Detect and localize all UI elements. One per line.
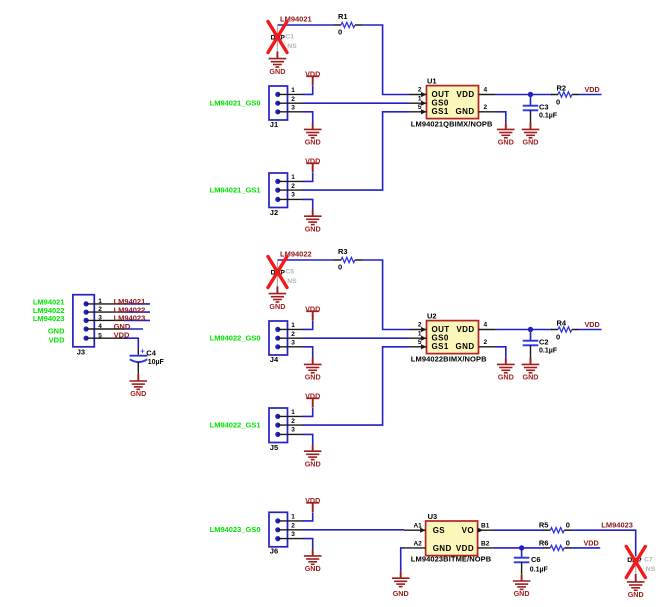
J3 stub wires — [124, 303, 150, 305]
svg-text:A1: A1 — [413, 523, 422, 530]
ground at U2 GND pin — [495, 347, 506, 358]
connector J1 (gain select 0 jumper) — [269, 86, 288, 120]
svg-text:VDD: VDD — [456, 90, 474, 99]
svg-text:GND: GND — [305, 373, 321, 382]
svg-text:C5: C5 — [285, 269, 294, 276]
power VDD net label right of R6 — [571, 547, 601, 549]
ground at J4 pin 3 — [303, 347, 313, 358]
junction node at C6 — [519, 545, 524, 550]
ground at J2 pin 3 — [303, 199, 313, 210]
resistor R3 0 ohm — [334, 259, 341, 261]
svg-text:J6: J6 — [270, 547, 278, 556]
resistor R6 0 ohm — [543, 547, 550, 549]
svg-text:0: 0 — [566, 539, 570, 548]
ground below C7 — [635, 574, 637, 582]
U3 right pin stubs — [478, 530, 494, 548]
svg-text:NS: NS — [646, 566, 656, 573]
svg-text:2: 2 — [418, 322, 422, 329]
svg-text:2: 2 — [291, 96, 295, 103]
svg-text:VDD: VDD — [49, 336, 65, 345]
ground below C3 — [530, 123, 532, 130]
connector J5 (gain select 1 jumper) — [269, 408, 288, 443]
U2 left pin stubs — [409, 330, 427, 347]
connector J3 (signal header) — [73, 295, 94, 347]
svg-text:LM94021QBIMX/NOPB: LM94021QBIMX/NOPB — [411, 120, 493, 129]
wire J5 pin 2 to U GS1 — [303, 347, 410, 425]
svg-text:U2: U2 — [427, 312, 437, 321]
U1 left pin stubs — [409, 95, 427, 112]
ground below C2 — [530, 358, 532, 365]
svg-text:U3: U3 — [428, 512, 438, 521]
svg-text:VDD: VDD — [456, 544, 474, 553]
svg-text:GND: GND — [305, 564, 321, 573]
wire LM94021 to R1 and U pin OUT — [277, 24, 334, 26]
svg-text:5: 5 — [418, 104, 422, 111]
svg-text:B2: B2 — [481, 540, 490, 547]
wire U1 VDD pin to C3 and R2 — [495, 94, 552, 96]
connector J4 (gain select 0 jumper) — [269, 321, 288, 355]
svg-text:2: 2 — [291, 522, 295, 529]
ground at U1 GND pin — [495, 112, 506, 123]
ground below C4 — [137, 374, 139, 381]
svg-text:NS: NS — [287, 43, 297, 50]
svg-text:GS: GS — [433, 526, 446, 535]
svg-text:R5: R5 — [539, 521, 549, 530]
svg-text:0: 0 — [556, 97, 560, 106]
svg-text:GND: GND — [523, 138, 539, 147]
svg-text:J1: J1 — [270, 120, 278, 129]
node LM94023 net label — [571, 530, 636, 556]
svg-text:10µF: 10µF — [148, 359, 165, 366]
svg-text:3: 3 — [98, 315, 102, 322]
svg-text:LM94021_GS1: LM94021_GS1 — [210, 185, 261, 194]
wire U2 VDD pin to C2 and R4 — [495, 329, 552, 331]
U2 right pin stubs — [479, 330, 496, 347]
ground at U3 GND pin A2 — [401, 548, 404, 572]
svg-text:GND: GND — [393, 589, 409, 598]
ground at J6 pin 3 — [303, 539, 313, 550]
svg-text:OUT: OUT — [432, 90, 450, 99]
svg-text:2: 2 — [418, 87, 422, 94]
junction node at C3 — [528, 92, 533, 97]
svg-text:GND: GND — [498, 373, 514, 382]
ground below C1 — [276, 52, 278, 59]
junction node at C2 — [528, 327, 533, 332]
svg-text:1: 1 — [418, 96, 422, 103]
svg-text:GND: GND — [456, 107, 475, 116]
ground below C5 — [276, 287, 278, 294]
svg-text:2: 2 — [291, 418, 295, 425]
svg-text:2: 2 — [484, 339, 488, 346]
svg-text:C2: C2 — [539, 337, 549, 346]
svg-text:GND: GND — [514, 589, 530, 598]
wire J2 pin 2 to U GS1 — [303, 112, 410, 190]
svg-text:0: 0 — [338, 263, 342, 272]
capacitor C7 DNP (not stuffed) — [631, 558, 641, 562]
svg-text:GS1: GS1 — [432, 342, 449, 351]
svg-text:GND: GND — [523, 373, 539, 382]
wire U3 VO pin B1 to R5 — [494, 529, 544, 531]
svg-text:A2: A2 — [413, 540, 422, 547]
svg-text:GND: GND — [269, 302, 285, 311]
svg-text:VDD: VDD — [585, 85, 600, 94]
wire J4 pin 2 to U GS0 — [303, 337, 410, 339]
svg-text:0.1µF: 0.1µF — [539, 113, 558, 120]
svg-text:GND: GND — [305, 224, 321, 233]
svg-text:1: 1 — [98, 298, 102, 305]
svg-text:LM94022_GS1: LM94022_GS1 — [210, 420, 261, 429]
svg-text:3: 3 — [291, 192, 295, 199]
svg-text:R1: R1 — [338, 12, 348, 21]
svg-text:VDD: VDD — [456, 325, 474, 334]
capacitor C6 0.1uF — [521, 548, 523, 558]
svg-text:2: 2 — [484, 104, 488, 111]
svg-text:GND: GND — [305, 459, 321, 468]
svg-text:C7: C7 — [644, 557, 653, 564]
resistor R1 0 ohm — [334, 24, 341, 26]
power VDD at J1 pin 1 — [303, 86, 313, 95]
svg-text:LM94021_GS0: LM94021_GS0 — [210, 99, 261, 108]
connector J6 (gain select jumper) — [269, 512, 288, 547]
ground below C6 — [521, 575, 523, 581]
svg-text:C3: C3 — [539, 102, 549, 111]
power VDD net label right of R2 — [579, 94, 602, 96]
svg-text:2: 2 — [291, 183, 295, 190]
temperature sensor IC U1 — [427, 86, 479, 119]
svg-text:1: 1 — [291, 409, 295, 416]
ground at J1 pin 3 — [303, 112, 313, 123]
svg-text:R2: R2 — [557, 83, 567, 92]
svg-text:R3: R3 — [338, 247, 348, 256]
svg-text:GND: GND — [456, 342, 475, 351]
svg-text:5: 5 — [98, 332, 102, 339]
svg-text:0: 0 — [566, 521, 570, 530]
svg-text:GND: GND — [433, 544, 452, 553]
power VDD at J6 pin 1 — [303, 512, 313, 521]
svg-text:3: 3 — [291, 427, 295, 434]
power VDD at J4 pin 1 — [303, 321, 313, 330]
svg-text:J5: J5 — [270, 443, 278, 452]
svg-text:NS: NS — [287, 278, 297, 285]
wire U3 VDD pin B2 to C6 and R6 — [494, 547, 544, 549]
svg-text:U1: U1 — [427, 77, 437, 86]
svg-text:1: 1 — [291, 87, 295, 94]
svg-text:VDD: VDD — [114, 330, 130, 339]
temperature sensor IC U2 — [427, 321, 479, 354]
DNP X mark over C1 — [268, 22, 287, 53]
svg-text:R4: R4 — [557, 318, 567, 327]
svg-text:4: 4 — [98, 323, 102, 330]
resistor R2 0 ohm — [551, 94, 558, 96]
svg-text:GND: GND — [48, 327, 65, 336]
svg-text:OUT: OUT — [432, 325, 450, 334]
svg-text:J3: J3 — [77, 347, 85, 356]
svg-text:LM94023BITME/NOPB: LM94023BITME/NOPB — [411, 554, 492, 563]
svg-text:2: 2 — [291, 331, 295, 338]
svg-text:0.1µF: 0.1µF — [539, 348, 558, 355]
capacitor C1 DNP (not stuffed) — [276, 25, 278, 35]
svg-text:GND: GND — [628, 590, 644, 599]
svg-text:1: 1 — [291, 322, 295, 329]
connector J2 (gain select 1 jumper) — [269, 173, 288, 208]
svg-text:GND: GND — [269, 67, 285, 76]
DNP X mark over C7 — [626, 547, 645, 578]
svg-text:LM94023: LM94023 — [33, 314, 65, 323]
svg-text:3: 3 — [291, 339, 295, 346]
svg-text:J2: J2 — [270, 208, 278, 217]
svg-text:1: 1 — [291, 514, 295, 521]
capacitor C4 10uF polarized — [137, 349, 139, 355]
svg-text:VDD: VDD — [585, 320, 600, 329]
svg-text:C1: C1 — [285, 34, 294, 41]
svg-text:J4: J4 — [270, 355, 279, 364]
svg-text:5: 5 — [418, 339, 422, 346]
svg-text:0.1µF: 0.1µF — [530, 566, 549, 573]
svg-text:0: 0 — [338, 28, 342, 37]
wire LM94022 to R3 and U pin OUT — [277, 259, 334, 261]
capacitor C2 0.1uF — [530, 330, 532, 341]
svg-text:GND: GND — [305, 138, 321, 147]
svg-text:4: 4 — [484, 322, 488, 329]
svg-text:GND: GND — [498, 138, 514, 147]
svg-text:3: 3 — [291, 531, 295, 538]
capacitor C3 0.1uF — [530, 95, 532, 106]
ground at J5 pin 3 — [303, 434, 313, 445]
svg-text:+: + — [140, 347, 145, 356]
resistor R4 0 ohm — [551, 329, 558, 331]
power VDD net label right of R4 — [579, 329, 602, 331]
U1 right pin stubs — [479, 95, 496, 112]
svg-text:LM94023_GS0: LM94023_GS0 — [210, 525, 261, 534]
svg-text:C6: C6 — [531, 555, 541, 564]
svg-text:C4: C4 — [146, 349, 156, 358]
svg-text:2: 2 — [98, 306, 102, 313]
svg-text:LM94022BIMX/NOPB: LM94022BIMX/NOPB — [411, 355, 487, 364]
power VDD at J5 pin 1 — [303, 408, 313, 417]
svg-text:VO: VO — [462, 526, 474, 535]
svg-text:R6: R6 — [539, 539, 549, 548]
svg-text:GS1: GS1 — [432, 107, 449, 116]
power VDD at J2 pin 1 — [303, 173, 313, 182]
U3 left pin stubs — [404, 530, 426, 548]
svg-text:GND: GND — [130, 389, 146, 398]
svg-text:B1: B1 — [481, 523, 490, 530]
wire J1 pin 2 to U GS0 — [303, 102, 410, 104]
svg-text:LM94023: LM94023 — [601, 521, 633, 530]
wire J6 pin 2 to U3 GS — [303, 529, 405, 531]
temperature sensor IC U3 — [426, 521, 478, 556]
svg-text:4: 4 — [484, 87, 488, 94]
svg-text:0: 0 — [556, 332, 560, 341]
svg-text:1: 1 — [418, 331, 422, 338]
svg-text:1: 1 — [291, 174, 295, 181]
svg-text:LM94022_GS0: LM94022_GS0 — [210, 334, 261, 343]
resistor R5 0 ohm — [543, 529, 550, 531]
svg-text:VDD: VDD — [584, 539, 599, 548]
capacitor C5 DNP (not stuffed) — [276, 260, 278, 270]
svg-text:3: 3 — [291, 104, 295, 111]
DNP X mark over C5 — [268, 257, 287, 288]
